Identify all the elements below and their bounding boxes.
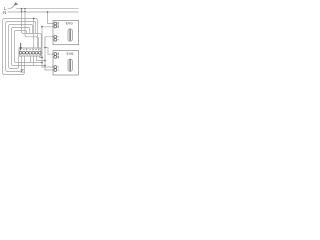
- lamp 1 filament bar: [70, 29, 71, 40]
- control unit terminal circles: [19, 51, 41, 54]
- svg-text:EVG: EVG: [66, 22, 73, 26]
- junction dot EVG1 N chain: [41, 26, 43, 28]
- junction dot on L at x25: [24, 8, 26, 10]
- wire L feed: [8, 7, 11, 9]
- wire drop N to EVG1 L terminal: [48, 12, 54, 24]
- junction dot on L at x21.5: [21, 8, 23, 10]
- control unit box: [19, 48, 41, 56]
- wire loop 2 left vertical and bottom: [6, 22, 22, 72]
- wire loop 5 left vertical and bottom run to EVG2 chain: [15, 31, 43, 63]
- wire N bus: [8, 11, 79, 13]
- junction dot on N at x21.5: [21, 11, 23, 13]
- control unit terminal labels: [20, 49, 39, 51]
- wire loop 3 left vertical and bottom: [9, 25, 19, 69]
- wire drop from N to control unit: [25, 12, 38, 48]
- wire EVG1 control to EVG2 control vertical: [45, 37, 53, 70]
- junction dot chain x45 y47.5: [44, 47, 46, 49]
- wire EVG2 mains stub: [45, 48, 53, 55]
- EVG1 box: [53, 21, 79, 45]
- EVG2 control terminal labels: [57, 67, 60, 71]
- arrow into control unit: [19, 43, 22, 50]
- EVG1 control terminals: [54, 35, 57, 41]
- wire loop 4 left vertical and bottom run to EVG2 control: [12, 28, 46, 66]
- wire control unit bottom stub 4: [40, 56, 43, 58]
- EVG2 mains terminal labels: [57, 53, 60, 59]
- lamp 2 filament bar: [70, 60, 71, 71]
- wire loop 5 top run: [16, 31, 27, 34]
- wire loop 3 top run: [10, 25, 32, 34]
- EVG1 control terminal labels: [57, 36, 60, 40]
- EVG1 mains terminals: [54, 22, 57, 28]
- junction dot on N at x25: [24, 11, 26, 13]
- wire control unit bottom stub 2: [33, 56, 35, 66]
- wire loop 1 top run: [5, 19, 38, 48]
- junction dot on N at x47.5: [47, 11, 49, 13]
- wire L bus: [16, 7, 78, 9]
- wire corner marker glyph: [21, 70, 24, 73]
- wire control unit bottom stub 1: [30, 56, 32, 63]
- svg-text:N: N: [3, 10, 6, 15]
- wire loop 1 left vertical: [3, 19, 25, 75]
- wire T-drop from run1 into unit: [33, 19, 35, 48]
- junction dot run1 T-drop: [33, 18, 35, 20]
- lamp 1: [68, 29, 72, 41]
- wire EVG1 N terminal to EVG2 chain vertical: [42, 27, 53, 67]
- junction dot chain x45 y60.5: [44, 60, 46, 62]
- EVG1 mains terminal labels: [57, 22, 60, 28]
- wire drop from L to control unit: [22, 8, 42, 48]
- lamp 2: [68, 59, 72, 71]
- wire loop 2 top run: [8, 22, 36, 34]
- switch S1: [11, 4, 16, 8]
- EVG2 mains terminals: [54, 53, 57, 59]
- switch S1 actuator tick: [14, 2, 18, 5]
- wire control unit bottom stub 3: [37, 56, 46, 61]
- wire loop 4 top run: [13, 28, 30, 34]
- EVG2 control terminals: [54, 66, 57, 72]
- junction dot chain x45 y65.5: [44, 65, 46, 67]
- junction dot chain x42 y57.5: [41, 57, 43, 59]
- junction dot chain x42 y62.5: [41, 62, 43, 64]
- svg-text:EVG: EVG: [67, 52, 74, 56]
- EVG2 box: [53, 51, 79, 76]
